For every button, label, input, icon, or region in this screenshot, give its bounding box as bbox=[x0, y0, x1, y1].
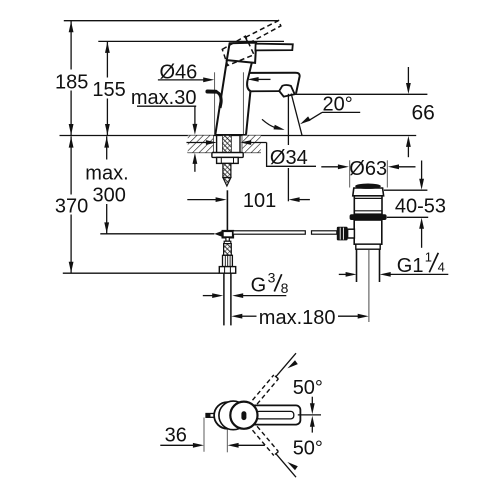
faucet base bottom edge bbox=[215, 134, 246, 136]
G3/8 dimension arrows bbox=[203, 295, 214, 297]
G3/8 hex nut bbox=[219, 267, 235, 274]
svg-text:G1: G1 bbox=[397, 255, 424, 277]
svg-text:4: 4 bbox=[438, 259, 445, 274]
lever axis extension line bbox=[298, 414, 321, 416]
counter top surface line bbox=[60, 135, 417, 137]
top reference line (max spout height) bbox=[64, 20, 279, 22]
40-53 extension lines bbox=[384, 189, 427, 191]
dimension 101 arrows bbox=[187, 199, 216, 201]
svg-text:8: 8 bbox=[281, 280, 289, 296]
junction left wedge bbox=[214, 231, 222, 237]
knurled section bbox=[223, 255, 233, 266]
Ø46 right arrow bbox=[258, 78, 270, 80]
bottom view: cap slot (black) bbox=[241, 411, 246, 420]
spout aerator outlet bbox=[279, 85, 295, 97]
dimension 36 extension lines bbox=[203, 418, 205, 452]
junction lower neck bbox=[226, 237, 229, 241]
threaded rod below nut (crosshatched) bbox=[223, 163, 231, 177]
spout bottom edge bbox=[251, 90, 280, 92]
bottom view: lever inner line bbox=[256, 411, 294, 419]
bottom view: lever top view bbox=[250, 405, 300, 424]
svg-text:Ø34: Ø34 bbox=[270, 147, 308, 169]
max.30 lower arrow bbox=[194, 163, 196, 172]
dimension G1 1/4 bbox=[339, 273, 347, 275]
faucet column right edge lower bbox=[246, 92, 250, 135]
upper ray solid end bbox=[276, 353, 296, 377]
svg-text:300: 300 bbox=[93, 184, 126, 206]
svg-text:185: 185 bbox=[55, 71, 88, 93]
threaded rod in shank (crosshatched) bbox=[223, 136, 231, 153]
lower ray solid end bbox=[276, 454, 296, 478]
drain flange bbox=[353, 188, 384, 196]
lower 50° dashed swing ray bbox=[253, 426, 279, 455]
svg-text:155: 155 bbox=[92, 79, 125, 101]
50° dimension vertical arrows bbox=[311, 397, 313, 404]
upper 50° dashed swing ray bbox=[253, 375, 279, 404]
svg-text:3: 3 bbox=[268, 270, 276, 286]
dimension Ø63 bbox=[321, 166, 338, 168]
drain Ø63 extension lines bbox=[349, 160, 351, 187]
drain neck bbox=[354, 196, 382, 214]
66 upper reference line (outlet height) bbox=[295, 93, 428, 95]
dimension Ø34 arrows at shank bbox=[187, 142, 207, 144]
bottom view: handle cap circle bbox=[230, 402, 257, 429]
dimension 40-53 bbox=[421, 161, 423, 180]
spout top and right edge bbox=[249, 73, 299, 94]
supply connector (crosshatched) bbox=[224, 244, 232, 256]
faucet column left edge bbox=[215, 60, 227, 135]
drain O-ring (black band) bbox=[350, 214, 387, 220]
second reference line (handle rest height) bbox=[98, 40, 284, 42]
handle lever (solid) bbox=[255, 44, 292, 51]
svg-text:50°: 50° bbox=[293, 438, 323, 460]
dimension 36 arrows bbox=[160, 444, 194, 446]
drain body bottom ring bbox=[356, 244, 380, 249]
rod tapered end bbox=[223, 178, 231, 187]
knob connector bbox=[348, 229, 355, 238]
dimension 185 line bbox=[70, 21, 72, 70]
svg-text:max.: max. bbox=[85, 163, 128, 185]
20 degree slanted stream line bbox=[291, 94, 302, 136]
counter hatching left block bbox=[188, 136, 214, 153]
svg-text:Ø63: Ø63 bbox=[349, 158, 387, 180]
dimension 155 line bbox=[106, 41, 108, 77]
washer under counter bbox=[212, 153, 243, 158]
svg-text:40-53: 40-53 bbox=[395, 196, 446, 218]
counter hole right edge bbox=[241, 136, 243, 153]
svg-text:max.180: max.180 bbox=[259, 307, 336, 329]
svg-text:370: 370 bbox=[55, 195, 88, 217]
mounting nut bbox=[217, 157, 239, 163]
drain top plug (black) bbox=[355, 184, 381, 189]
pull rod vertical (faucet axis) bbox=[226, 190, 228, 231]
faucet column right edge upper bbox=[247, 61, 252, 92]
counter hatching right block bbox=[242, 136, 261, 153]
svg-text:36: 36 bbox=[165, 424, 187, 446]
dimension max.180 bbox=[242, 315, 257, 317]
counter hole left edge bbox=[213, 136, 215, 153]
20 degree swing arc with arrow bbox=[262, 119, 276, 128]
svg-text:101: 101 bbox=[243, 190, 276, 212]
20 degree spout axis vertical line bbox=[287, 94, 289, 145]
supply pipe walls bbox=[223, 273, 225, 325]
dimension 66 arrows bbox=[407, 67, 409, 84]
bottom view: middle ring bbox=[219, 401, 248, 430]
svg-text:G: G bbox=[251, 275, 267, 297]
svg-text:50°: 50° bbox=[293, 377, 323, 399]
handle base (solid) bbox=[227, 43, 256, 63]
drain tailpipe walls bbox=[356, 249, 358, 282]
svg-text:1: 1 bbox=[425, 249, 432, 264]
Ø34 leader elbow bbox=[267, 143, 316, 167]
pop-up rod hook at back of body bbox=[207, 90, 215, 94]
bottom view: body circle (left) bbox=[214, 402, 241, 429]
pull rod junction block bbox=[223, 231, 233, 237]
hose-end reference line (370 bottom) bbox=[63, 272, 219, 274]
counter bottom line bbox=[188, 152, 261, 154]
drain valve body bbox=[354, 220, 382, 244]
horizontal pull rod to drain (left segment) bbox=[233, 231, 305, 234]
shank tube below counter: outer and inner wall lines bbox=[216, 136, 218, 153]
dimension 370 line bbox=[70, 136, 72, 194]
pull rod knob (black, knurled) bbox=[337, 227, 348, 241]
horizontal pull rod to drain (right segment) bbox=[312, 231, 337, 234]
dimension max.300 line bbox=[106, 136, 108, 159]
drain axis line bbox=[368, 250, 370, 322]
handle raised position (dashed outline) bbox=[219, 19, 287, 68]
bottom view: pop-up pin bbox=[206, 414, 221, 418]
svg-text:66: 66 bbox=[412, 102, 435, 125]
pull-rod reference line (max.300 bottom) bbox=[100, 233, 214, 235]
dimension Ø46 extension lines bbox=[214, 72, 216, 135]
